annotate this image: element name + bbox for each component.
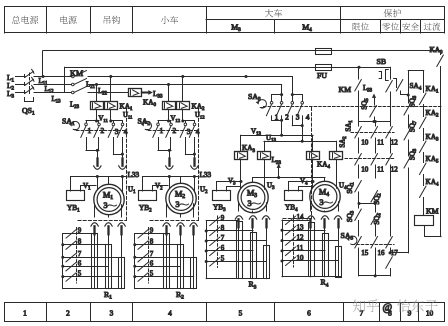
wire phase C to KA0 [88, 92, 128, 94]
wire rotor 3 [266, 203, 268, 211]
feed jog [408, 70, 424, 72]
rotor contact 8 [206, 230, 253, 232]
wire phase A bus [88, 76, 292, 78]
cable arrow rotor 1 [163, 223, 170, 226]
svg-text:9: 9 [150, 227, 154, 235]
wire phase B bus [88, 84, 282, 86]
wire rotor 3 to resistor [193, 235, 195, 289]
SA3 linkage dashed long [264, 106, 442, 108]
rotor contact 9 [63, 233, 95, 235]
svg-text:4: 4 [196, 127, 200, 136]
wire YB right [153, 186, 169, 192]
contactor KM main pole 3 [72, 91, 75, 94]
controller SA2 contact 1 [157, 123, 160, 126]
rotor ladder bus [134, 234, 136, 289]
rotor linkage dashed [76, 228, 78, 284]
safety chain join [390, 252, 408, 254]
wire YB left [70, 177, 72, 192]
header cell 吊钩 [104, 16, 120, 24]
overcurrent relay contact KA1 [423, 77, 425, 93]
wire contacts 3+4 join [185, 138, 187, 155]
overcurrent relay KA1 a [91, 102, 104, 110]
wire KA2-b feed [182, 77, 184, 102]
wire limit out [358, 248, 360, 276]
svg-text:4: 4 [124, 127, 128, 136]
wire rotor 2 to resistor [180, 235, 182, 289]
QS1 handle [25, 98, 34, 102]
cable arrow rotor [249, 216, 256, 219]
resistor R2 element 3 [191, 258, 197, 289]
disconnect switch QS1 pole 2 [24, 83, 26, 86]
motor M1 [94, 184, 124, 214]
wire SA3 T-split left [272, 94, 282, 96]
wire YB4 left [289, 182, 314, 192]
svg-text:7: 7 [150, 250, 154, 258]
svg-text:5: 5 [78, 270, 82, 278]
svg-text:1: 1 [23, 308, 27, 317]
wire V to motor [97, 177, 99, 190]
overcurrent relay KA4 a [307, 152, 320, 160]
disconnect switch QS1 pole 3 [24, 91, 26, 94]
L33 arrow bridge [277, 164, 281, 168]
brake YB2 [139, 191, 157, 201]
svg-text:3: 3 [247, 199, 251, 208]
svg-text:14: 14 [297, 213, 305, 221]
bottom node [359, 275, 390, 277]
wire KA2-a feed [168, 85, 170, 102]
cable arrow rotor 3 [190, 223, 197, 226]
overcurrent relay KA0 [129, 89, 142, 97]
svg-text:2: 2 [285, 113, 289, 122]
wire split b [183, 120, 195, 122]
SA3 limit handle [349, 236, 357, 244]
svg-text:3: 3 [110, 308, 114, 317]
wire KM coil return [425, 226, 442, 237]
svg-text:3: 3 [115, 127, 119, 136]
wire motor W stub [180, 177, 182, 184]
wire rotor 3 [338, 202, 340, 211]
bridge boundary dashed [283, 218, 312, 220]
SA3 limit linkage dashed [352, 244, 394, 246]
resistor R1 element 2 [106, 245, 112, 289]
rotor bottom tie [135, 288, 197, 290]
controller SA1 contact 3 [112, 123, 115, 126]
disconnect switch QS1 pole 1 [24, 75, 26, 78]
controller SA1 contact 2 [98, 123, 101, 126]
wire SA3 out 1+2 [271, 116, 273, 120]
cable arrow rotor 2 [105, 223, 112, 226]
overcurrent relay KA2 b [177, 102, 190, 110]
wire SA3 T-split right [292, 94, 302, 96]
cable arrow V [94, 166, 101, 169]
wire U13 to KA3b [264, 141, 266, 151]
emergency switch SA4 contact [396, 80, 403, 91]
overcurrent relay KA2 a [163, 102, 176, 110]
rotor bottom tie [63, 288, 125, 290]
rotor contact 8 [135, 244, 181, 246]
wire V to motor [169, 177, 171, 189]
wire rotor 1 [166, 204, 168, 217]
fuse FU upper [316, 49, 332, 55]
rotor ladder bus [282, 220, 284, 277]
zero-position contact SA1 [390, 122, 392, 127]
svg-text:8: 8 [150, 238, 154, 246]
resistor R3 element 2 [251, 233, 257, 279]
svg-text:9: 9 [408, 308, 412, 317]
cross tie [359, 203, 375, 205]
node bus into zero-position rows [359, 121, 390, 123]
controller SA1 contact 4 [121, 123, 124, 126]
controller SA2 contact 4 [193, 123, 196, 126]
rotor ladder bus [62, 234, 64, 289]
control line 1 [43, 50, 316, 52]
svg-text:7: 7 [78, 250, 82, 258]
rotor contact 10 [282, 260, 338, 262]
controller SA3 contact 3 [291, 101, 294, 104]
svg-text:3: 3 [103, 201, 107, 210]
rotor linkage dashed [293, 215, 295, 267]
svg-text:17: 17 [391, 249, 399, 257]
contactor coil KM [415, 216, 434, 226]
wire KA3-a to motor [240, 159, 242, 188]
wire phase B drop to SA3 [281, 85, 283, 95]
SA3 handle [258, 100, 266, 108]
overcurrent relay KA4 b [330, 152, 343, 160]
svg-text:L33: L33 [128, 171, 140, 179]
svg-text:3: 3 [319, 198, 323, 207]
wire KA1-b out [110, 110, 112, 122]
svg-text:L33: L33 [200, 171, 212, 179]
rotor contact 5 [135, 276, 194, 278]
wire phase 3 to QS1 [16, 92, 26, 94]
wire phase A drop to SA3 [292, 77, 294, 95]
wire rotor 2 [252, 211, 254, 213]
brake YB1 [67, 191, 85, 201]
fuse FU lower [316, 65, 332, 71]
svg-text:15: 15 [361, 249, 369, 257]
wire SA3 out 3+4 [292, 116, 294, 126]
SA2 linkage dashed [149, 130, 199, 132]
wire U to motor [194, 177, 196, 192]
controller SA3 contact 1 [270, 101, 273, 104]
wire motor3 motor4 W tie [253, 177, 325, 179]
resistor R2 element 1 [164, 234, 170, 289]
L33 feed arrow [142, 92, 149, 94]
bottom column-number table [5, 302, 445, 304]
header cell 小车 [161, 16, 178, 24]
controller SA1 contact 1 [85, 123, 88, 126]
rotor linkage dashed [148, 228, 150, 284]
svg-text:4: 4 [168, 308, 172, 317]
overcurrent relay KA3 b [258, 152, 271, 160]
resistor R4 element 2 [323, 234, 329, 277]
wire rotor 1 [310, 202, 312, 211]
svg-text:8: 8 [78, 238, 82, 246]
control line 2 [65, 67, 316, 69]
svg-text:13: 13 [297, 223, 305, 231]
wire rotor 2 to resistor [108, 235, 110, 289]
wire rotor 1 [94, 205, 96, 217]
rotor contact 6 [135, 266, 181, 268]
cable arrow V [166, 166, 173, 169]
wire split a [86, 120, 97, 122]
motor M4 [310, 181, 340, 211]
wire rotor 2 [324, 210, 326, 213]
overcurrent relay contact KA4 [423, 175, 425, 186]
svg-text:@: @ [383, 303, 393, 314]
svg-text:7: 7 [221, 234, 225, 242]
svg-text:11: 11 [377, 139, 384, 147]
wire KA4-b to motor [336, 159, 338, 188]
rotor contact 6 [206, 250, 253, 252]
svg-text:16: 16 [378, 249, 386, 257]
L33 arrow control [372, 94, 376, 98]
wire rotor 3 [193, 204, 195, 217]
wire U13 [264, 141, 336, 143]
emergency switch SA4 branch [408, 71, 410, 104]
svg-text:6: 6 [150, 259, 154, 267]
wire contacts 3+4 join [113, 138, 115, 155]
limit contact SA3 [371, 237, 378, 248]
wire rotor 3 [121, 205, 123, 217]
zero-position contact SA1 [358, 122, 360, 127]
wire rotor 2 [180, 214, 182, 217]
motor M3 [238, 182, 268, 212]
header cell 电源 [60, 16, 77, 24]
svg-text:SB: SB [377, 57, 387, 66]
svg-text:11: 11 [377, 166, 384, 174]
wire KA4-a to motor [312, 159, 314, 187]
wire tap line2 to phase C [64, 67, 66, 92]
wire tap line1 to phase A [42, 51, 44, 77]
svg-text:9: 9 [78, 227, 82, 235]
wire YB3 right [227, 187, 241, 192]
wire KA2-a out [168, 110, 170, 122]
rotor contact 7 [63, 257, 122, 259]
SA1 handle [71, 121, 79, 129]
header table frame [5, 6, 445, 8]
watermark 知乎 [353, 299, 379, 312]
zero-position contact SA2 [371, 154, 378, 165]
header cell 安全 [402, 23, 419, 31]
zero-position contact SA2 [355, 154, 362, 165]
cable arrow rotor 3 [118, 223, 125, 226]
overcurrent chain [423, 71, 425, 78]
cable arrow U [191, 166, 198, 169]
wire V13 to KA4a [312, 135, 314, 151]
resistor R3 element 3 [264, 246, 270, 279]
limit contact 17 lower [386, 257, 393, 268]
rotor contact 11 [282, 250, 325, 252]
overcurrent relay contact KA5 [423, 153, 425, 163]
header cell 过流 [424, 22, 441, 30]
cable arrow rotor [334, 216, 341, 219]
wire stator V down [169, 150, 171, 159]
brake YB3 [213, 191, 231, 201]
group boundary dashed [198, 108, 200, 221]
resistor R1 element 3 [119, 258, 125, 289]
resistor R4 element 3 [336, 247, 342, 278]
wire line1 right corner [440, 51, 442, 55]
svg-text:5: 5 [221, 255, 225, 263]
zero-position contact SA2 [386, 154, 393, 165]
svg-text:KM: KM [70, 69, 84, 78]
svg-text:KM: KM [426, 207, 439, 216]
motor M2 [166, 183, 196, 213]
resistor R3 element 1 [237, 222, 243, 279]
rotor contact 7 [135, 257, 194, 259]
overcurrent relay contact KA3 [423, 129, 425, 141]
SA2 handle [143, 121, 151, 129]
svg-text:3: 3 [187, 127, 191, 136]
wire U13 to KA4b [336, 141, 338, 151]
svg-text:FU: FU [317, 71, 327, 80]
controller SA3 contact 2 [280, 101, 283, 104]
wire V13 to KA3a [240, 135, 242, 151]
wire U to motor [122, 177, 124, 193]
cable arrow U [119, 166, 126, 169]
wire line2 to KM aux [358, 66, 361, 69]
rotor ladder bus [206, 221, 208, 279]
controller SA2 contact 2 [170, 123, 173, 126]
resistor R4 element 1 [309, 223, 315, 277]
rotor contact 7 [206, 240, 266, 242]
limit contact SA3 [386, 237, 393, 248]
svg-text:12: 12 [297, 234, 305, 242]
rotor contact 5 [63, 276, 122, 278]
cable arrow rotor [262, 216, 269, 219]
overcurrent relay contact KA2 [423, 105, 425, 117]
wire KA3-b to motor [264, 159, 266, 189]
svg-text:KM: KM [339, 85, 352, 94]
controller SA3 contact 4 [301, 101, 304, 104]
rotor contact 13 [282, 230, 325, 232]
cable arrow rotor 2 [177, 223, 184, 226]
cable arrow rotor [235, 216, 242, 219]
header cell 保护 [384, 9, 402, 17]
wire YB3 left [217, 182, 242, 192]
overcurrent relay KA3 a [235, 152, 248, 160]
rotor contact 12 [282, 240, 338, 242]
wire rotor 2 [108, 215, 110, 217]
wire phase 1 QS1 to KM [34, 76, 72, 78]
svg-text:10: 10 [361, 139, 369, 147]
wire rotor 3 to resistor [121, 235, 123, 289]
contactor KM main pole 2 [72, 83, 75, 86]
wire SB branch [390, 67, 392, 79]
svg-text:9: 9 [221, 214, 225, 222]
SQ5 contact [370, 106, 377, 117]
wire KA1-b feed [110, 77, 112, 102]
resistor R2 element 2 [178, 245, 184, 289]
wire stator U down [194, 154, 196, 159]
svg-text:10: 10 [426, 308, 434, 317]
svg-text:3: 3 [175, 200, 179, 209]
wire KA2-b out [182, 110, 184, 122]
wire split a [158, 120, 169, 122]
svg-text:4: 4 [306, 113, 310, 122]
wire phase 2 QS1 to KM [34, 84, 72, 86]
stator node line [71, 176, 127, 178]
wire rotor 1 [238, 203, 240, 211]
wire phase 1 to QS1 [16, 76, 26, 78]
svg-text:6: 6 [221, 244, 225, 252]
header cell 限位 [353, 23, 369, 31]
cable arrow rotor 1 [91, 223, 98, 226]
wire YB4 right [299, 187, 313, 192]
overcurrent relay KA1 b [105, 102, 118, 110]
zero-position row SA1 dashed [351, 132, 394, 134]
wire YB left [142, 177, 144, 192]
header cell 零位 [382, 23, 398, 31]
rotor contact 9 [135, 233, 167, 235]
QS1 linkage [29, 73, 31, 95]
wire motor W stub [108, 177, 110, 185]
SA1 linkage dashed [77, 130, 127, 132]
header cell 大车 [265, 9, 282, 17]
svg-text:6: 6 [307, 308, 311, 317]
cable arrow rotor [307, 216, 314, 219]
limit contact SA3 [355, 237, 362, 248]
rotor contact 14 [282, 220, 311, 222]
rotor linkage dashed [217, 216, 219, 268]
svg-text:2: 2 [66, 308, 70, 317]
wire YB right [81, 186, 97, 192]
svg-text:3: 3 [296, 113, 300, 122]
zero-position contact SA1 [375, 122, 377, 127]
header cell 总电源 [12, 16, 38, 24]
resistor R1 element 1 [92, 234, 98, 289]
rotor contact 8 [63, 244, 109, 246]
svg-text:8: 8 [221, 224, 225, 232]
wire contacts 1+2 join [158, 138, 160, 151]
stator node line [143, 176, 199, 178]
contactor KM aux contact [355, 80, 362, 91]
wire phase 3 QS1 to KM [34, 92, 72, 94]
wire stator V down [97, 150, 99, 159]
wire phase 2 to QS1 [16, 84, 26, 86]
wire stator U down [122, 154, 124, 159]
rotor contact 6 [63, 266, 109, 268]
zero-position row SA2 dashed [345, 158, 394, 160]
wire split b [111, 120, 123, 122]
brake YB4 [285, 191, 303, 201]
wire KA1-a out [96, 110, 98, 122]
overcurrent relay KA0 contact [437, 55, 444, 66]
contactor KM main pole 1 [72, 75, 75, 78]
group boundary dashed [126, 108, 128, 221]
controller SA2 contact 3 [184, 123, 187, 126]
svg-text:5: 5 [150, 270, 154, 278]
rotor contact 9 [206, 220, 239, 222]
svg-text:11: 11 [297, 244, 304, 252]
wire V13 [241, 135, 313, 137]
svg-text:12: 12 [391, 139, 399, 147]
svg-text:5: 5 [239, 308, 243, 317]
svg-text:10: 10 [297, 254, 305, 262]
wire KA1-a feed [96, 85, 98, 102]
rotor contact 5 [206, 261, 266, 263]
wire rotor 1 to resistor [94, 235, 96, 289]
svg-text:10: 10 [361, 166, 369, 174]
svg-text:6: 6 [78, 259, 82, 267]
cable arrow rotor [321, 216, 328, 219]
wire rotor 1 to resistor [166, 235, 168, 289]
wire contacts 1+2 join [86, 138, 88, 151]
svg-text:12: 12 [391, 166, 399, 174]
wire to KM coil [423, 198, 425, 216]
